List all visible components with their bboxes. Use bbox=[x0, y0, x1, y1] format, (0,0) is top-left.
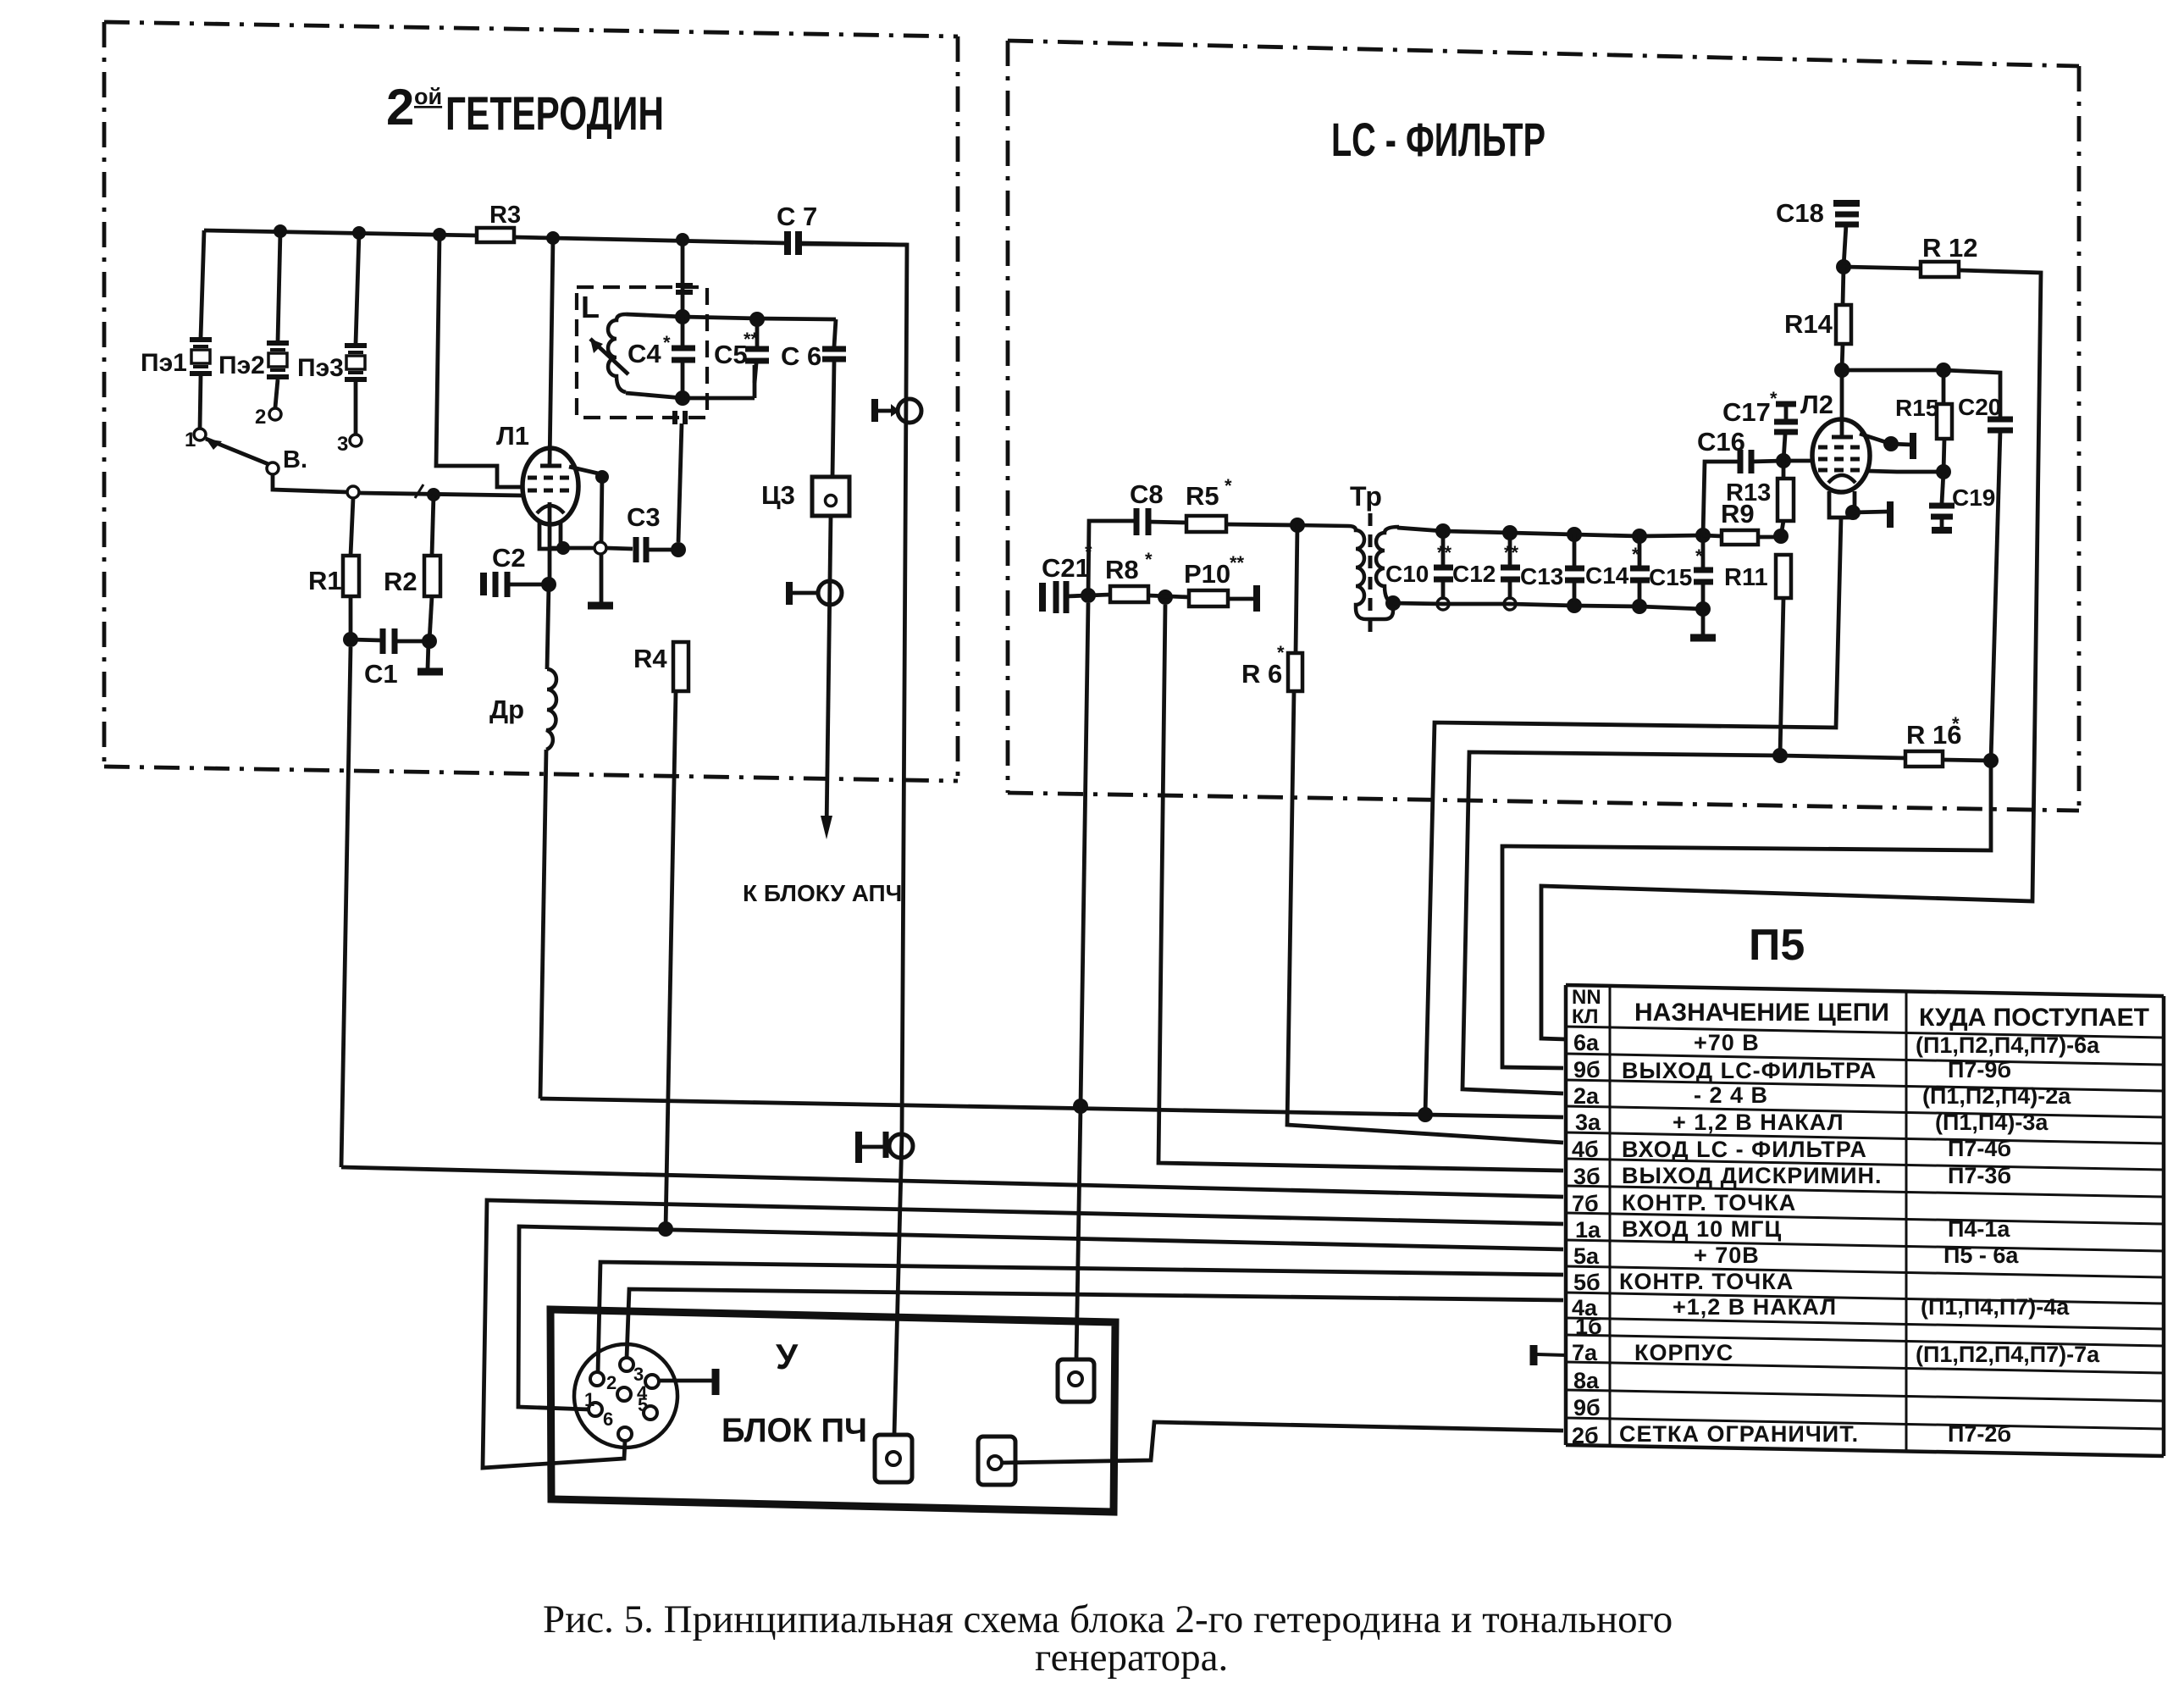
svg-text:**: ** bbox=[1437, 542, 1452, 563]
tube L2 bbox=[1812, 419, 1870, 492]
tube L1 cathode sleeve bbox=[539, 523, 561, 549]
wire C3 to R4 node bbox=[646, 548, 678, 552]
wire filter bottom rail bbox=[1393, 603, 1703, 609]
capacitor C20 bbox=[1958, 394, 2013, 430]
wire R1 node down to 7b row corner bbox=[341, 647, 351, 1167]
svg-text:генератора.: генератора. bbox=[1035, 1636, 1228, 1680]
svg-text:3: 3 bbox=[337, 433, 348, 456]
table destination column text bbox=[1916, 1032, 2100, 1447]
capacitor C14 bbox=[1585, 536, 1650, 603]
wire node to L2 grid bbox=[1783, 459, 1812, 463]
svg-text:*: * bbox=[1225, 475, 1232, 496]
node junction dot R14/anode bbox=[1834, 363, 1849, 378]
wire 5a row to tube block pin1 bbox=[518, 1226, 1563, 1409]
tube L2 grid dashes bbox=[1818, 446, 1865, 450]
svg-text:+1,2 В НАКАЛ: +1,2 В НАКАЛ bbox=[1673, 1294, 1837, 1320]
wire bus tap down through L box bbox=[681, 240, 685, 317]
connector table P5 bbox=[1534, 921, 2164, 1456]
coax connector on C7 line bottom bbox=[859, 1132, 913, 1163]
svg-text:ВХОД LC - ФИЛЬТРА: ВХОД LC - ФИЛЬТРА bbox=[1622, 1137, 1867, 1162]
capacitor C5 bbox=[714, 319, 769, 383]
wire R12 to right drop bbox=[1541, 270, 2041, 1039]
svg-text:П4-1а: П4-1а bbox=[1948, 1216, 2010, 1242]
node dots bottom rail bbox=[1567, 598, 1711, 617]
node junction dot Tr bottom bbox=[1385, 595, 1401, 611]
svg-text:R 12: R 12 bbox=[1922, 233, 1977, 263]
svg-text:C4: C4 bbox=[628, 339, 661, 368]
wire anode bus to R15/C20 bbox=[1842, 368, 1943, 373]
coax square socket 1 bbox=[875, 1435, 912, 1482]
wire L2 heater down and across to 3a node bbox=[1425, 518, 1841, 1115]
wire pin 4 to terminal bbox=[659, 1379, 714, 1383]
svg-text:2а: 2а bbox=[1573, 1083, 1600, 1109]
wire 4a row to tube block pin3 bbox=[627, 1289, 1563, 1359]
svg-text:L: L bbox=[581, 290, 600, 324]
wire L bottom rail bbox=[626, 393, 683, 398]
svg-text:*: * bbox=[1695, 545, 1703, 567]
wire bus to screen grid of L1 bbox=[436, 235, 523, 487]
svg-text:R2: R2 bbox=[384, 567, 417, 596]
tube L2 anode bar bbox=[1832, 435, 1853, 440]
wire C16 tap bbox=[1703, 462, 1738, 535]
capacitor C6 bbox=[781, 319, 846, 477]
svg-text:П7-2б: П7-2б bbox=[1948, 1421, 2011, 1447]
svg-text:R14: R14 bbox=[1784, 309, 1833, 339]
node open circles bottom rail bbox=[1437, 598, 1449, 610]
capacitor C18 bbox=[1776, 198, 1860, 267]
svg-text:Л1: Л1 bbox=[496, 421, 529, 451]
svg-text:СЕТКА ОГРАНИЧИТ.: СЕТКА ОГРАНИЧИТ. bbox=[1619, 1421, 1859, 1447]
switch contact 1 bbox=[194, 429, 206, 440]
wire Pe2 to contact 2 bbox=[275, 379, 278, 407]
resistor R9 bbox=[1703, 535, 1722, 536]
node junction dot L2 heater on 3a bbox=[1418, 1107, 1433, 1122]
pin 5 bbox=[644, 1406, 657, 1420]
wire Pe3 to contact 3 bbox=[354, 382, 358, 434]
capacitor C16 bbox=[1697, 427, 1751, 473]
svg-text:П7-9б: П7-9б bbox=[1948, 1057, 2011, 1082]
tube L1 grid dashes bbox=[528, 476, 574, 480]
svg-text:C8: C8 bbox=[1130, 479, 1164, 509]
crystal Pe1 bbox=[141, 340, 212, 377]
node junction dot C21 line on 3a bbox=[1073, 1099, 1088, 1114]
wire C16 to grid node bbox=[1751, 461, 1783, 462]
terminal bar L2 grid3 bbox=[1910, 433, 1916, 459]
svg-text:1а: 1а bbox=[1575, 1217, 1601, 1243]
wire junction to grid of L1 bbox=[359, 493, 523, 495]
feedthrough capacitor top of L box bbox=[676, 283, 693, 288]
svg-text:C20: C20 bbox=[1958, 394, 2001, 420]
wire Pe1 to contact 1 bbox=[200, 376, 201, 429]
svg-text:П7-3б: П7-3б bbox=[1948, 1163, 2011, 1188]
capacitor C10 bbox=[1385, 531, 1453, 600]
svg-text:C 7: C 7 bbox=[777, 202, 817, 231]
node dots top rail bbox=[1435, 523, 1711, 544]
capacitor C21 input bbox=[1042, 541, 1092, 613]
table row lines bbox=[1566, 1027, 2164, 1038]
node junction dot C2/cathode bbox=[541, 577, 556, 592]
svg-text:- 2 4 В: - 2 4 В bbox=[1694, 1082, 1768, 1108]
svg-text:Р10: Р10 bbox=[1184, 559, 1230, 589]
wire 2b row from block square bbox=[1002, 1422, 1563, 1463]
node junction dot C16/C17/R13 bbox=[1776, 453, 1791, 468]
capacitor C15 bbox=[1649, 535, 1713, 606]
svg-text:LC - ФИЛЬТР: LC - ФИЛЬТР bbox=[1331, 113, 1545, 166]
resistor R13 bbox=[1778, 479, 1794, 521]
svg-text:(П1,П2,П4,П7)-6а: (П1,П2,П4,П7)-6а bbox=[1916, 1032, 2100, 1058]
pin center bbox=[617, 1387, 631, 1401]
svg-text:5а: 5а bbox=[1573, 1243, 1600, 1269]
variable arrow of L bbox=[590, 339, 628, 374]
wire L2 cathode terminal bbox=[1845, 505, 1861, 520]
table column lines bbox=[1609, 986, 1612, 1446]
node junction dot R4 on 5a bbox=[658, 1221, 673, 1237]
resistor R10 bbox=[1189, 590, 1228, 606]
svg-text:C21: C21 bbox=[1042, 553, 1090, 583]
wire 3a heater row from choke bbox=[540, 1099, 1563, 1117]
svg-text:R11: R11 bbox=[1724, 564, 1768, 591]
crossing tick on grid wire bbox=[415, 484, 423, 498]
pin 2 bbox=[590, 1372, 604, 1386]
svg-text:C13: C13 bbox=[1520, 563, 1563, 590]
svg-text:П5 - 6а: П5 - 6а bbox=[1943, 1243, 2019, 1268]
svg-text:C12: C12 bbox=[1452, 561, 1496, 587]
wire switch B to grid line bbox=[273, 474, 347, 492]
wire bus to anode of L1 bbox=[550, 238, 553, 464]
node junction dots on bus bbox=[274, 224, 689, 246]
svg-text:КЛ: КЛ bbox=[1572, 1005, 1599, 1028]
capacitor C17 bbox=[1722, 388, 1798, 461]
node junction dot to R2 bbox=[427, 488, 440, 501]
node open circle crossing on cathode wire bbox=[594, 542, 606, 554]
svg-text:ой: ой bbox=[414, 84, 442, 109]
figure caption bbox=[543, 1597, 1673, 1680]
node junction dot R15/C19/screen bbox=[1936, 464, 1951, 479]
tube L1 bbox=[523, 448, 578, 524]
wire choke down to heater row corner bbox=[540, 750, 546, 1099]
svg-text:ВЫХОД ДИСКРИМИН.: ВЫХОД ДИСКРИМИН. bbox=[1622, 1163, 1883, 1188]
coax connector on C7 line top bbox=[875, 399, 921, 423]
table circuit purpose column text bbox=[1619, 1030, 1883, 1447]
svg-text:7б: 7б bbox=[1572, 1191, 1599, 1216]
wire 9b feed from R16 node bbox=[1502, 761, 1991, 1068]
discriminator crystal Ts3 bbox=[761, 477, 849, 516]
capacitor C8 bbox=[1130, 479, 1164, 535]
svg-text:R8: R8 bbox=[1105, 555, 1139, 584]
svg-text:(П1,П4,П7)-4а: (П1,П4,П7)-4а bbox=[1921, 1294, 2070, 1320]
svg-text:*: * bbox=[1145, 549, 1153, 570]
circular connector of block bbox=[574, 1344, 677, 1448]
svg-text:R15: R15 bbox=[1895, 395, 1938, 421]
svg-text:(П1,П4)-3а: (П1,П4)-3а bbox=[1935, 1110, 2049, 1135]
switch contact 3 bbox=[350, 435, 362, 446]
tube L2 cathode sleeve bbox=[1829, 491, 1855, 518]
svg-text:9б: 9б bbox=[1573, 1395, 1601, 1420]
svg-text:КОНТР. ТОЧКА: КОНТР. ТОЧКА bbox=[1619, 1269, 1794, 1294]
svg-text:1: 1 bbox=[185, 429, 196, 451]
wire R8/R10 node down to 3b row bbox=[1158, 605, 1563, 1171]
wire C15 node to ground bbox=[1701, 609, 1706, 635]
svg-text:**: ** bbox=[744, 329, 759, 350]
svg-text:7а: 7а bbox=[1572, 1340, 1598, 1365]
svg-text:Л2: Л2 bbox=[1800, 390, 1833, 419]
terminal bar pin4 bbox=[712, 1369, 720, 1395]
wire R6 down to 4b row corner bbox=[1287, 691, 1563, 1143]
svg-text:У: У bbox=[776, 1337, 799, 1376]
svg-text:3а: 3а bbox=[1575, 1110, 1601, 1135]
svg-text:C5: C5 bbox=[714, 340, 748, 369]
wire R11 node left to 2a corner bbox=[1462, 752, 1780, 1093]
svg-text:**: ** bbox=[1230, 552, 1245, 573]
svg-text:Ц3: Ц3 bbox=[761, 480, 795, 510]
capacitor C12 bbox=[1452, 533, 1520, 600]
wire filter top rail bbox=[1397, 528, 1703, 536]
wire 5b row to tube block pin2 bbox=[598, 1262, 1563, 1373]
tube L1 anode bar bbox=[540, 464, 561, 468]
ground symbol filter bbox=[1690, 634, 1716, 642]
svg-text:+ 70В: + 70В bbox=[1694, 1243, 1760, 1268]
terminal bar after R10 bbox=[1228, 597, 1255, 601]
wire R5 to Tr node bbox=[1226, 524, 1297, 525]
node junction dot R9/R13/R11 bbox=[1773, 529, 1789, 544]
svg-text:R 6: R 6 bbox=[1241, 659, 1282, 689]
node junction dot R8/R10 bbox=[1158, 590, 1173, 605]
wire L2 anode from node bbox=[1840, 370, 1844, 435]
wire C7 to output drop bbox=[800, 244, 907, 1135]
resistor R2 bbox=[432, 495, 434, 556]
switch common contact B bbox=[267, 462, 279, 474]
wire R15 bottom to C19 bbox=[1943, 439, 1944, 472]
wire R1 to C1 node bbox=[349, 596, 353, 639]
capacitor C19 bbox=[1929, 484, 1995, 530]
svg-text:C18: C18 bbox=[1776, 198, 1824, 228]
svg-text:5: 5 bbox=[638, 1394, 648, 1415]
pin 6 bbox=[618, 1427, 632, 1441]
right block dash-dot border (LC-filter enclosure) bbox=[1008, 41, 2079, 811]
svg-text:*: * bbox=[1632, 544, 1639, 565]
svg-text:Пэ1: Пэ1 bbox=[141, 349, 187, 377]
transformer Tr secondary bbox=[1376, 527, 1399, 603]
svg-text:C19: C19 bbox=[1952, 484, 1995, 511]
svg-text:(П1,П2,П4)-2а: (П1,П2,П4)-2а bbox=[1922, 1083, 2071, 1109]
transformer Tr primary bbox=[1297, 525, 1393, 619]
wire node up to C8 branch bbox=[1088, 521, 1134, 595]
svg-text:C3: C3 bbox=[627, 502, 661, 532]
node open circle junction to R1 bbox=[347, 486, 359, 498]
svg-text:C16: C16 bbox=[1697, 427, 1745, 457]
wire C8 to R5 bbox=[1148, 522, 1186, 523]
svg-text:КУДА ПОСТУПАЕТ: КУДА ПОСТУПАЕТ bbox=[1919, 1004, 2149, 1032]
node junction dot R16/C20 bbox=[1983, 753, 1999, 768]
svg-text:C17: C17 bbox=[1722, 397, 1771, 427]
node junction dot C18/R12/R14 bbox=[1836, 259, 1851, 274]
pin 3 bbox=[620, 1358, 633, 1371]
node junction dot R2/C1 bbox=[422, 634, 437, 649]
wire C3 node up to L box bbox=[678, 423, 682, 542]
wire L top rail bbox=[626, 314, 683, 317]
svg-text:Тр: Тр bbox=[1350, 481, 1382, 512]
wire L2 anode tap to terminal bbox=[1860, 434, 1891, 444]
wire L1 cathode row bbox=[548, 502, 552, 583]
choke Dr bbox=[546, 669, 556, 750]
capacitor C4 bbox=[628, 317, 695, 398]
wire C18 node to R14 bbox=[1843, 267, 1844, 305]
resistor R16 bbox=[1780, 756, 1905, 758]
wire R6 feed bbox=[1296, 525, 1297, 653]
capacitor C3 bbox=[627, 502, 661, 562]
svg-text:6а: 6а bbox=[1573, 1030, 1600, 1055]
wire node down through R13 bbox=[1782, 461, 1786, 479]
ground symbol near L1 bbox=[588, 602, 613, 610]
IF block (BLOK PCh) bbox=[550, 1309, 1115, 1512]
wire R11 down to R16 node bbox=[1780, 598, 1783, 756]
svg-text:*: * bbox=[1952, 713, 1960, 734]
svg-text:R3: R3 bbox=[489, 202, 521, 229]
svg-text:2: 2 bbox=[386, 79, 414, 136]
switch contact 2 bbox=[269, 408, 281, 420]
block body thick frame bbox=[550, 1309, 1115, 1512]
resistor R3 bbox=[477, 228, 514, 242]
svg-text:Др: Др bbox=[489, 695, 524, 724]
transformer Tr core bbox=[1368, 513, 1373, 635]
svg-text:+ 1,2 В НАКАЛ: + 1,2 В НАКАЛ bbox=[1673, 1110, 1844, 1135]
wire bus to Pe3 bbox=[356, 233, 359, 344]
switch blade with arrow bbox=[206, 439, 268, 464]
svg-text:ВЫХОД LC-ФИЛЬТРА: ВЫХОД LC-ФИЛЬТРА bbox=[1622, 1058, 1877, 1083]
wire L1 shield to ground bbox=[569, 467, 602, 542]
resistor R5 bbox=[1186, 516, 1226, 532]
svg-text:ВХОД 10 МГЦ: ВХОД 10 МГЦ bbox=[1622, 1216, 1782, 1242]
svg-text:В.: В. bbox=[283, 446, 307, 473]
resistor R1 bbox=[351, 498, 353, 556]
resistor R4 bbox=[673, 642, 688, 691]
wire L2 screen to C19 node bbox=[1868, 471, 1943, 472]
svg-text:C1: C1 bbox=[364, 659, 398, 689]
svg-text:R5: R5 bbox=[1186, 481, 1219, 511]
svg-text:R4: R4 bbox=[633, 644, 667, 673]
capacitor C7 bbox=[777, 202, 817, 255]
svg-text:3б: 3б bbox=[1573, 1164, 1601, 1189]
svg-text:(П1,П2,П4,П7)-7а: (П1,П2,П4,П7)-7а bbox=[1916, 1342, 2100, 1367]
tube L1 cathode arc bbox=[537, 506, 564, 513]
node junction dot R11/R16 bbox=[1772, 748, 1788, 763]
svg-text:C14: C14 bbox=[1585, 562, 1629, 589]
wire C20 down to R16 node bbox=[1991, 430, 2000, 761]
capacitor C1 bbox=[351, 628, 429, 689]
capacitor C2 bbox=[484, 543, 526, 597]
feedthrough capacitor bottom of L box bbox=[672, 411, 677, 424]
svg-text:8а: 8а bbox=[1573, 1368, 1600, 1393]
coax connector on Ts3 line bbox=[789, 581, 842, 605]
arrow to APCh block bbox=[821, 816, 832, 839]
wire R14 to anode node bbox=[1842, 344, 1843, 370]
table outer frame bbox=[1566, 985, 2164, 1456]
terminal bar L2 cathode bbox=[1887, 501, 1894, 528]
svg-text:Пэ3: Пэ3 bbox=[297, 354, 344, 382]
left block dash-dot border (2nd heterodyne enclosure) bbox=[104, 22, 958, 781]
coax square socket 2 bbox=[978, 1437, 1015, 1485]
resistor R6 bbox=[1288, 653, 1302, 691]
capacitor C13 bbox=[1520, 534, 1584, 602]
svg-text:R1: R1 bbox=[308, 566, 342, 595]
crystal Pe2 bbox=[218, 343, 289, 379]
node junction dot C21/C8/R8 bbox=[1081, 588, 1096, 603]
svg-text:Пэ2: Пэ2 bbox=[218, 352, 265, 379]
pin 4 bbox=[645, 1375, 659, 1388]
wire bus to Pe2 bbox=[278, 231, 280, 341]
wire bus to Pe1 bbox=[201, 230, 204, 338]
resistor R12 bbox=[1844, 267, 1921, 268]
svg-text:ГЕТЕРОДИН: ГЕТЕРОДИН bbox=[445, 86, 664, 140]
svg-text:2б: 2б bbox=[1572, 1423, 1599, 1448]
node junction dots of L tank bbox=[675, 309, 690, 324]
svg-text:П7-4б: П7-4б bbox=[1948, 1136, 2011, 1161]
svg-text:5б: 5б bbox=[1573, 1270, 1601, 1295]
inductor L dashed shield box bbox=[577, 287, 707, 418]
wire C21 line down to block P4 square bbox=[1081, 603, 1088, 1106]
svg-text:C 6: C 6 bbox=[781, 341, 821, 371]
pin 1 bbox=[589, 1403, 602, 1416]
node junction dot R15 top bbox=[1936, 363, 1951, 378]
coax square socket 3 bbox=[1058, 1359, 1094, 1402]
wire 7b row from R1 bbox=[341, 1167, 1563, 1197]
svg-text:НАЗНАЧЕНИЕ ЦЕПИ: НАЗНАЧЕНИЕ ЦЕПИ bbox=[1634, 999, 1889, 1027]
node junction dot R5/R6/Tr bbox=[1290, 518, 1305, 533]
resistor R11 bbox=[1776, 555, 1791, 598]
ground symbol below R2 bbox=[417, 668, 443, 676]
svg-text:+70 В: +70 В bbox=[1694, 1030, 1760, 1055]
resistor R8 bbox=[1088, 595, 1110, 595]
svg-text:*: * bbox=[1277, 642, 1285, 663]
svg-text:**: ** bbox=[1504, 542, 1519, 563]
wire 1a row to tube block pin6 bbox=[483, 1200, 1563, 1468]
wire C7 line into block square bbox=[894, 1135, 902, 1435]
svg-text:C10: C10 bbox=[1385, 561, 1429, 587]
wire R4 down to 5a row node bbox=[666, 691, 676, 1229]
svg-text:К БЛОКУ АПЧ: К БЛОКУ АПЧ bbox=[743, 880, 902, 906]
node junction dot C3/R4 bbox=[671, 542, 686, 557]
resistor R14 bbox=[1836, 305, 1851, 344]
svg-text:2: 2 bbox=[606, 1372, 616, 1393]
wire cathode to choke bbox=[547, 584, 549, 669]
svg-text:6: 6 bbox=[603, 1409, 613, 1430]
block title: 2-oy GETERODIN bbox=[386, 79, 664, 140]
table header text bbox=[1572, 986, 1601, 1028]
resistor R15 bbox=[1942, 370, 1946, 404]
crystal Pe3 bbox=[297, 346, 367, 382]
svg-text:9б: 9б bbox=[1573, 1057, 1601, 1082]
svg-text:*: * bbox=[1770, 388, 1778, 409]
coil L bbox=[608, 314, 626, 392]
svg-text:П5: П5 bbox=[1749, 921, 1805, 970]
wire C2 to cathode line bbox=[507, 583, 549, 587]
svg-text:4б: 4б bbox=[1572, 1137, 1599, 1162]
svg-text:C15: C15 bbox=[1649, 564, 1692, 590]
svg-text:C2: C2 bbox=[492, 543, 526, 573]
wire R2 to ground bbox=[429, 596, 432, 641]
table pin number cells bbox=[1572, 1030, 1602, 1448]
tube L2 cathode arc bbox=[1828, 475, 1855, 483]
svg-text:1: 1 bbox=[584, 1389, 594, 1410]
wire B+ bus of heterodyne bbox=[204, 230, 477, 235]
svg-text:КОРПУС: КОРПУС bbox=[1634, 1340, 1733, 1365]
svg-text:КОНТР. ТОЧКА: КОНТР. ТОЧКА bbox=[1622, 1190, 1796, 1215]
svg-text:2: 2 bbox=[255, 406, 266, 429]
svg-text:*: * bbox=[663, 332, 671, 353]
svg-text:R13: R13 bbox=[1726, 479, 1771, 507]
svg-text:1б: 1б bbox=[1575, 1314, 1602, 1339]
ground terminal at row 7a bbox=[1534, 1345, 1566, 1365]
